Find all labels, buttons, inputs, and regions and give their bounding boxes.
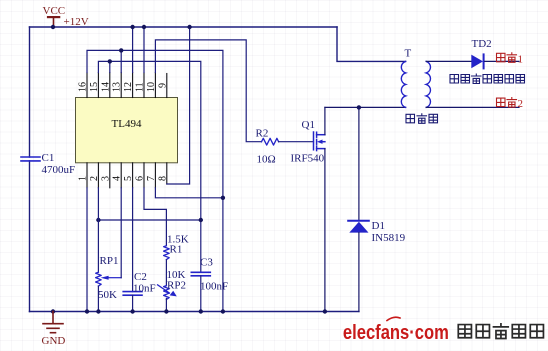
svg-text:C3: C3	[200, 257, 213, 269]
wire: RP2 bottom to bus	[165, 298, 167, 311]
svg-text:R2: R2	[256, 128, 269, 140]
junction dot pin7 join	[221, 196, 225, 200]
svg-text:+12V: +12V	[64, 16, 89, 28]
wire: secondary top to TD2	[426, 60, 471, 62]
wire: pin 10 net to R2 feed	[155, 40, 261, 142]
diode D1	[348, 221, 369, 233]
svg-text:VCC: VCC	[43, 5, 66, 17]
svg-text:14: 14	[100, 82, 111, 92]
wire: +12V corner down to transformer primary top	[337, 27, 406, 61]
wire: D1 vertical top	[358, 107, 360, 220]
svg-text:1: 1	[78, 176, 89, 181]
junction dot pin2	[96, 218, 100, 222]
label 高压2 (red)	[497, 98, 517, 108]
wire: bottom ground bus	[30, 311, 359, 313]
wire: pin 8 run right and riser to +12V rail	[167, 27, 190, 184]
junction dot pin14	[108, 59, 112, 63]
wire: pin 16 / pin 13 net at y=50.4 down right side to ground bus	[87, 50, 223, 311]
transistor Q1 MOSFET	[314, 132, 325, 151]
diode TD2	[471, 54, 483, 68]
svg-text:9: 9	[157, 83, 168, 88]
svg-text:15: 15	[89, 82, 100, 92]
junction dot Q1 source on bus	[323, 309, 327, 313]
wire: Q1 drain up to transformer primary bottom	[324, 107, 326, 134]
svg-text:10: 10	[146, 82, 157, 92]
capacitor C1	[21, 157, 40, 161]
svg-text:6: 6	[135, 176, 146, 181]
svg-text:10nF: 10nF	[133, 283, 156, 295]
potentiometer RP2	[164, 286, 170, 300]
label 高压包 (blue cjk)	[406, 114, 438, 124]
junction dot RP1 bottom on bus	[96, 309, 100, 313]
capacitor C3	[191, 272, 210, 276]
svg-text:11: 11	[135, 82, 146, 92]
logo 电子发烧友	[458, 324, 543, 339]
junction dot C3 vertical	[199, 218, 203, 222]
svg-text:RP1: RP1	[100, 255, 119, 267]
RP1 wiper arrow	[101, 276, 109, 280]
svg-text:50K: 50K	[98, 289, 117, 301]
wire: +12V top rail	[30, 26, 338, 28]
RP2 wiper arrow	[158, 285, 170, 293]
junction dot C3 on bus	[199, 309, 203, 313]
svg-text:7: 7	[146, 176, 157, 181]
junction dot pin13	[119, 48, 123, 52]
svg-text:T: T	[405, 48, 412, 60]
wire: R1 to RP2	[165, 260, 167, 286]
junction dot C2 on bus	[130, 309, 134, 313]
svg-text:elecfans·com: elecfans·com	[343, 322, 449, 344]
svg-text:3: 3	[100, 176, 111, 181]
svg-text:IN5819: IN5819	[372, 232, 406, 244]
wire: pin 6 jog to R1 column	[144, 188, 166, 246]
junction dot RP2 on bus	[164, 309, 168, 313]
ground symbol GND	[51, 309, 55, 313]
wire: Q1 source down to bus	[324, 149, 326, 312]
junction dot VCC on rail	[51, 25, 55, 29]
wire: TD2 cathode out	[485, 60, 519, 62]
wire: pin 7 drop and run to right-side vertical	[155, 188, 223, 198]
wire: pin 14 riser	[109, 61, 111, 72]
svg-text:2: 2	[89, 176, 100, 181]
junction dot pin11 on rail	[142, 25, 146, 29]
junction dot pin8 riser on rail	[187, 25, 191, 29]
svg-text:4: 4	[112, 176, 123, 181]
wire: R2 to Q1 gate	[279, 141, 314, 143]
pin stubs top (pins 16..9)	[87, 73, 167, 98]
logo swoosh	[387, 317, 400, 320]
capacitor C2	[132, 188, 134, 292]
transformer T secondary winding	[426, 61, 430, 107]
svg-text:TL494: TL494	[112, 118, 142, 130]
wire: pin 11 riser to +12V rail	[143, 27, 145, 73]
wire: drain node to transformer	[325, 106, 406, 108]
wire: D1 anode down to bus corner	[358, 233, 360, 312]
svg-text:100nF: 100nF	[200, 281, 228, 293]
junction dot D1 top node	[357, 105, 361, 109]
Q1 arrow	[317, 140, 323, 144]
svg-text:13: 13	[112, 82, 123, 92]
svg-text:TD2: TD2	[472, 38, 492, 50]
svg-text:10Ω: 10Ω	[257, 154, 276, 166]
power symbol VCC	[48, 17, 59, 27]
wire: secondary bottom out	[426, 106, 519, 108]
wire: pin 2 horizontal run to C3 vertical	[98, 219, 200, 221]
svg-text:12: 12	[123, 82, 134, 92]
resistor R2	[262, 138, 279, 145]
junction dot right vertical on bus	[221, 309, 225, 313]
svg-text:R1: R1	[170, 244, 183, 256]
svg-text:C1: C1	[42, 152, 55, 164]
wire: pin 12 riser to +12V rail	[132, 27, 134, 73]
svg-text:RP2: RP2	[167, 280, 186, 292]
wire: wiper to pin 4	[120, 188, 122, 278]
svg-text:5: 5	[123, 176, 134, 181]
svg-text:C2: C2	[134, 271, 147, 283]
wire: pin 15 / pin 14 net at y=61.4 down to C3	[98, 61, 200, 272]
wire: left rail with C1 gap	[29, 27, 31, 312]
svg-text:4700uF: 4700uF	[42, 164, 76, 176]
potentiometer RP1	[97, 188, 99, 272]
svg-text:Q1: Q1	[302, 119, 315, 131]
transformer T primary winding	[401, 61, 405, 107]
wire: pin 13 riser	[120, 50, 122, 72]
junction dot pin12 on rail	[130, 25, 134, 29]
wire: pin1 to bus	[86, 188, 88, 312]
wire: C3 bottom to bus	[200, 276, 202, 312]
junction dot pin1 on bus	[85, 309, 89, 313]
svg-text:2: 2	[518, 98, 524, 110]
svg-text:D1: D1	[372, 220, 385, 232]
svg-text:IRF540: IRF540	[291, 153, 325, 165]
svg-text:8: 8	[157, 176, 168, 181]
pin stubs bottom (pins 1..8)	[87, 163, 167, 188]
svg-text:GND: GND	[42, 335, 66, 347]
resistor R1	[164, 246, 170, 260]
IC U1 TL494 body	[76, 98, 178, 163]
label 高压1 (red)	[497, 53, 517, 63]
svg-text:16: 16	[78, 82, 89, 92]
svg-text:1: 1	[518, 53, 524, 65]
label 包内整流二极管 (blue cjk)	[450, 74, 525, 84]
